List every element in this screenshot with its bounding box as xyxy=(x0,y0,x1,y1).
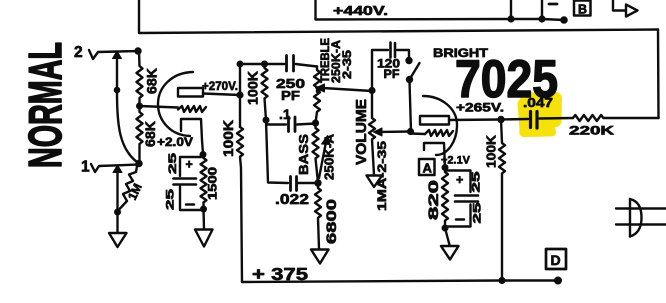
svg-text:25: 25 xyxy=(471,172,483,193)
capacitor 250PF xyxy=(287,56,294,72)
cathode V1B xyxy=(424,143,445,168)
capacitor 25/25 V1A box xyxy=(180,157,203,210)
node B box xyxy=(574,1,591,16)
grid V1B xyxy=(425,130,453,136)
node D box xyxy=(546,249,566,269)
svg-text:1500: 1500 xyxy=(208,167,220,200)
node cathode1 xyxy=(200,151,207,158)
resistor 68K lower xyxy=(137,106,143,163)
tube V1B envelope xyxy=(423,96,457,155)
svg-text:PF: PF xyxy=(281,88,300,103)
svg-text:D: D xyxy=(551,252,561,268)
node wiper grid2 xyxy=(407,128,414,135)
capacitor .047 xyxy=(501,118,528,121)
svg-text:.1: .1 xyxy=(279,106,291,122)
wire jack1 ground xyxy=(116,170,118,232)
wire cathode2 ground xyxy=(445,228,450,245)
svg-text:6800: 6800 xyxy=(323,199,339,244)
wire plate2 xyxy=(449,118,501,121)
svg-text:100K: 100K xyxy=(484,134,499,168)
svg-text:2-35: 2-35 xyxy=(340,50,354,79)
resistor 820 xyxy=(442,168,448,229)
svg-text:2: 2 xyxy=(74,44,83,61)
svg-text:NORMAL: NORMAL xyxy=(19,42,71,168)
highlight over .047 xyxy=(518,92,563,138)
tube next stage fragment xyxy=(629,199,631,237)
wire plate1 rail xyxy=(239,64,241,127)
svg-text:25: 25 xyxy=(167,153,179,174)
wire plate1 xyxy=(203,94,240,96)
grid V1A xyxy=(178,106,206,112)
node cathode2 xyxy=(442,164,449,171)
svg-text:+270V.: +270V. xyxy=(202,81,238,93)
volume pot 1MA xyxy=(369,91,375,176)
svg-text:.047: .047 xyxy=(523,96,553,110)
svg-text:+: + xyxy=(186,158,193,172)
wire right edge vertical xyxy=(657,30,660,119)
svg-text:820: 820 xyxy=(425,180,441,220)
svg-text:+: + xyxy=(456,173,463,187)
wire heater bottom xyxy=(616,223,666,225)
resistor 100K slope xyxy=(262,64,268,120)
svg-text:+ 375: + 375 xyxy=(252,264,308,284)
wire shorting curve xyxy=(117,56,137,162)
arrow out xyxy=(613,0,626,11)
node plate1 xyxy=(236,91,243,98)
svg-text:100K: 100K xyxy=(221,120,236,157)
+440V box xyxy=(316,0,512,20)
ground jack1 xyxy=(109,233,127,247)
rail top xyxy=(240,63,285,65)
svg-text:VOLUME: VOLUME xyxy=(354,99,370,165)
switch bright xyxy=(405,57,412,64)
svg-text:A: A xyxy=(423,161,433,176)
node cathode2 bottom xyxy=(442,225,449,232)
plate V1A xyxy=(178,88,203,97)
svg-text:220K: 220K xyxy=(569,124,615,138)
node grid1 xyxy=(136,103,143,110)
ground volume xyxy=(367,176,383,188)
minus sign xyxy=(549,3,557,6)
svg-text:PF: PF xyxy=(384,67,400,81)
svg-text:68K: 68K xyxy=(142,121,158,147)
cathode V1A xyxy=(181,119,203,154)
wire supply stubs xyxy=(510,0,512,19)
wiper treble xyxy=(323,88,372,91)
ground 6800 xyxy=(311,250,329,264)
resistor 100K plate load xyxy=(237,127,243,282)
node tone mid xyxy=(263,117,270,124)
node slope xyxy=(261,61,268,68)
node bass bottom xyxy=(314,179,321,186)
wire tone mid down xyxy=(266,120,288,183)
wire grid1 xyxy=(140,106,179,108)
node jack1 xyxy=(135,160,142,167)
node plate2 xyxy=(497,116,504,123)
resistor 6800 xyxy=(315,183,321,249)
rail +375 xyxy=(242,281,558,283)
plate V1B xyxy=(420,116,449,125)
svg-text:BASS: BASS xyxy=(296,134,311,175)
ground cathode1 xyxy=(195,230,213,247)
svg-text:+2.0V: +2.0V xyxy=(157,137,193,149)
node volume top xyxy=(368,87,375,94)
node jack2 xyxy=(134,47,141,54)
capacitor .022 xyxy=(291,177,297,191)
svg-text:+440V.: +440V. xyxy=(333,3,388,18)
svg-text:100K: 100K xyxy=(246,71,261,105)
resistor 220K xyxy=(573,115,659,121)
resistor 100K load2 xyxy=(499,120,505,281)
wire grid2 xyxy=(411,132,426,135)
svg-text:+265V.: +265V. xyxy=(456,101,504,115)
wire cathode1 ground xyxy=(202,209,205,229)
box A xyxy=(419,159,435,175)
svg-text:.022: .022 xyxy=(275,192,309,208)
bass pot 250K-A xyxy=(313,123,319,183)
wire heater top xyxy=(616,207,666,209)
treble pot 250K-A xyxy=(314,67,320,124)
resistor 1500 xyxy=(201,155,207,210)
capacitor .1 xyxy=(266,120,286,125)
tube V1A envelope xyxy=(158,72,193,136)
wiper volume xyxy=(380,130,411,133)
resistor 68K upper xyxy=(137,51,143,106)
ground cathode2 xyxy=(441,246,459,260)
svg-text:B: B xyxy=(578,3,587,17)
resistor 1M xyxy=(120,166,138,209)
svg-text:68K: 68K xyxy=(144,68,160,94)
svg-text:1: 1 xyxy=(81,159,90,176)
node cathode1 bottom xyxy=(200,206,207,213)
capacitor 120PF bright xyxy=(372,50,388,91)
svg-text:25: 25 xyxy=(472,203,484,224)
chassis box top xyxy=(139,0,658,33)
node treble bass xyxy=(312,119,319,126)
node rail left xyxy=(237,61,244,68)
svg-text:25: 25 xyxy=(165,189,177,210)
wiper bass xyxy=(319,142,326,178)
capacitor 25/25 V1B box xyxy=(445,171,471,227)
